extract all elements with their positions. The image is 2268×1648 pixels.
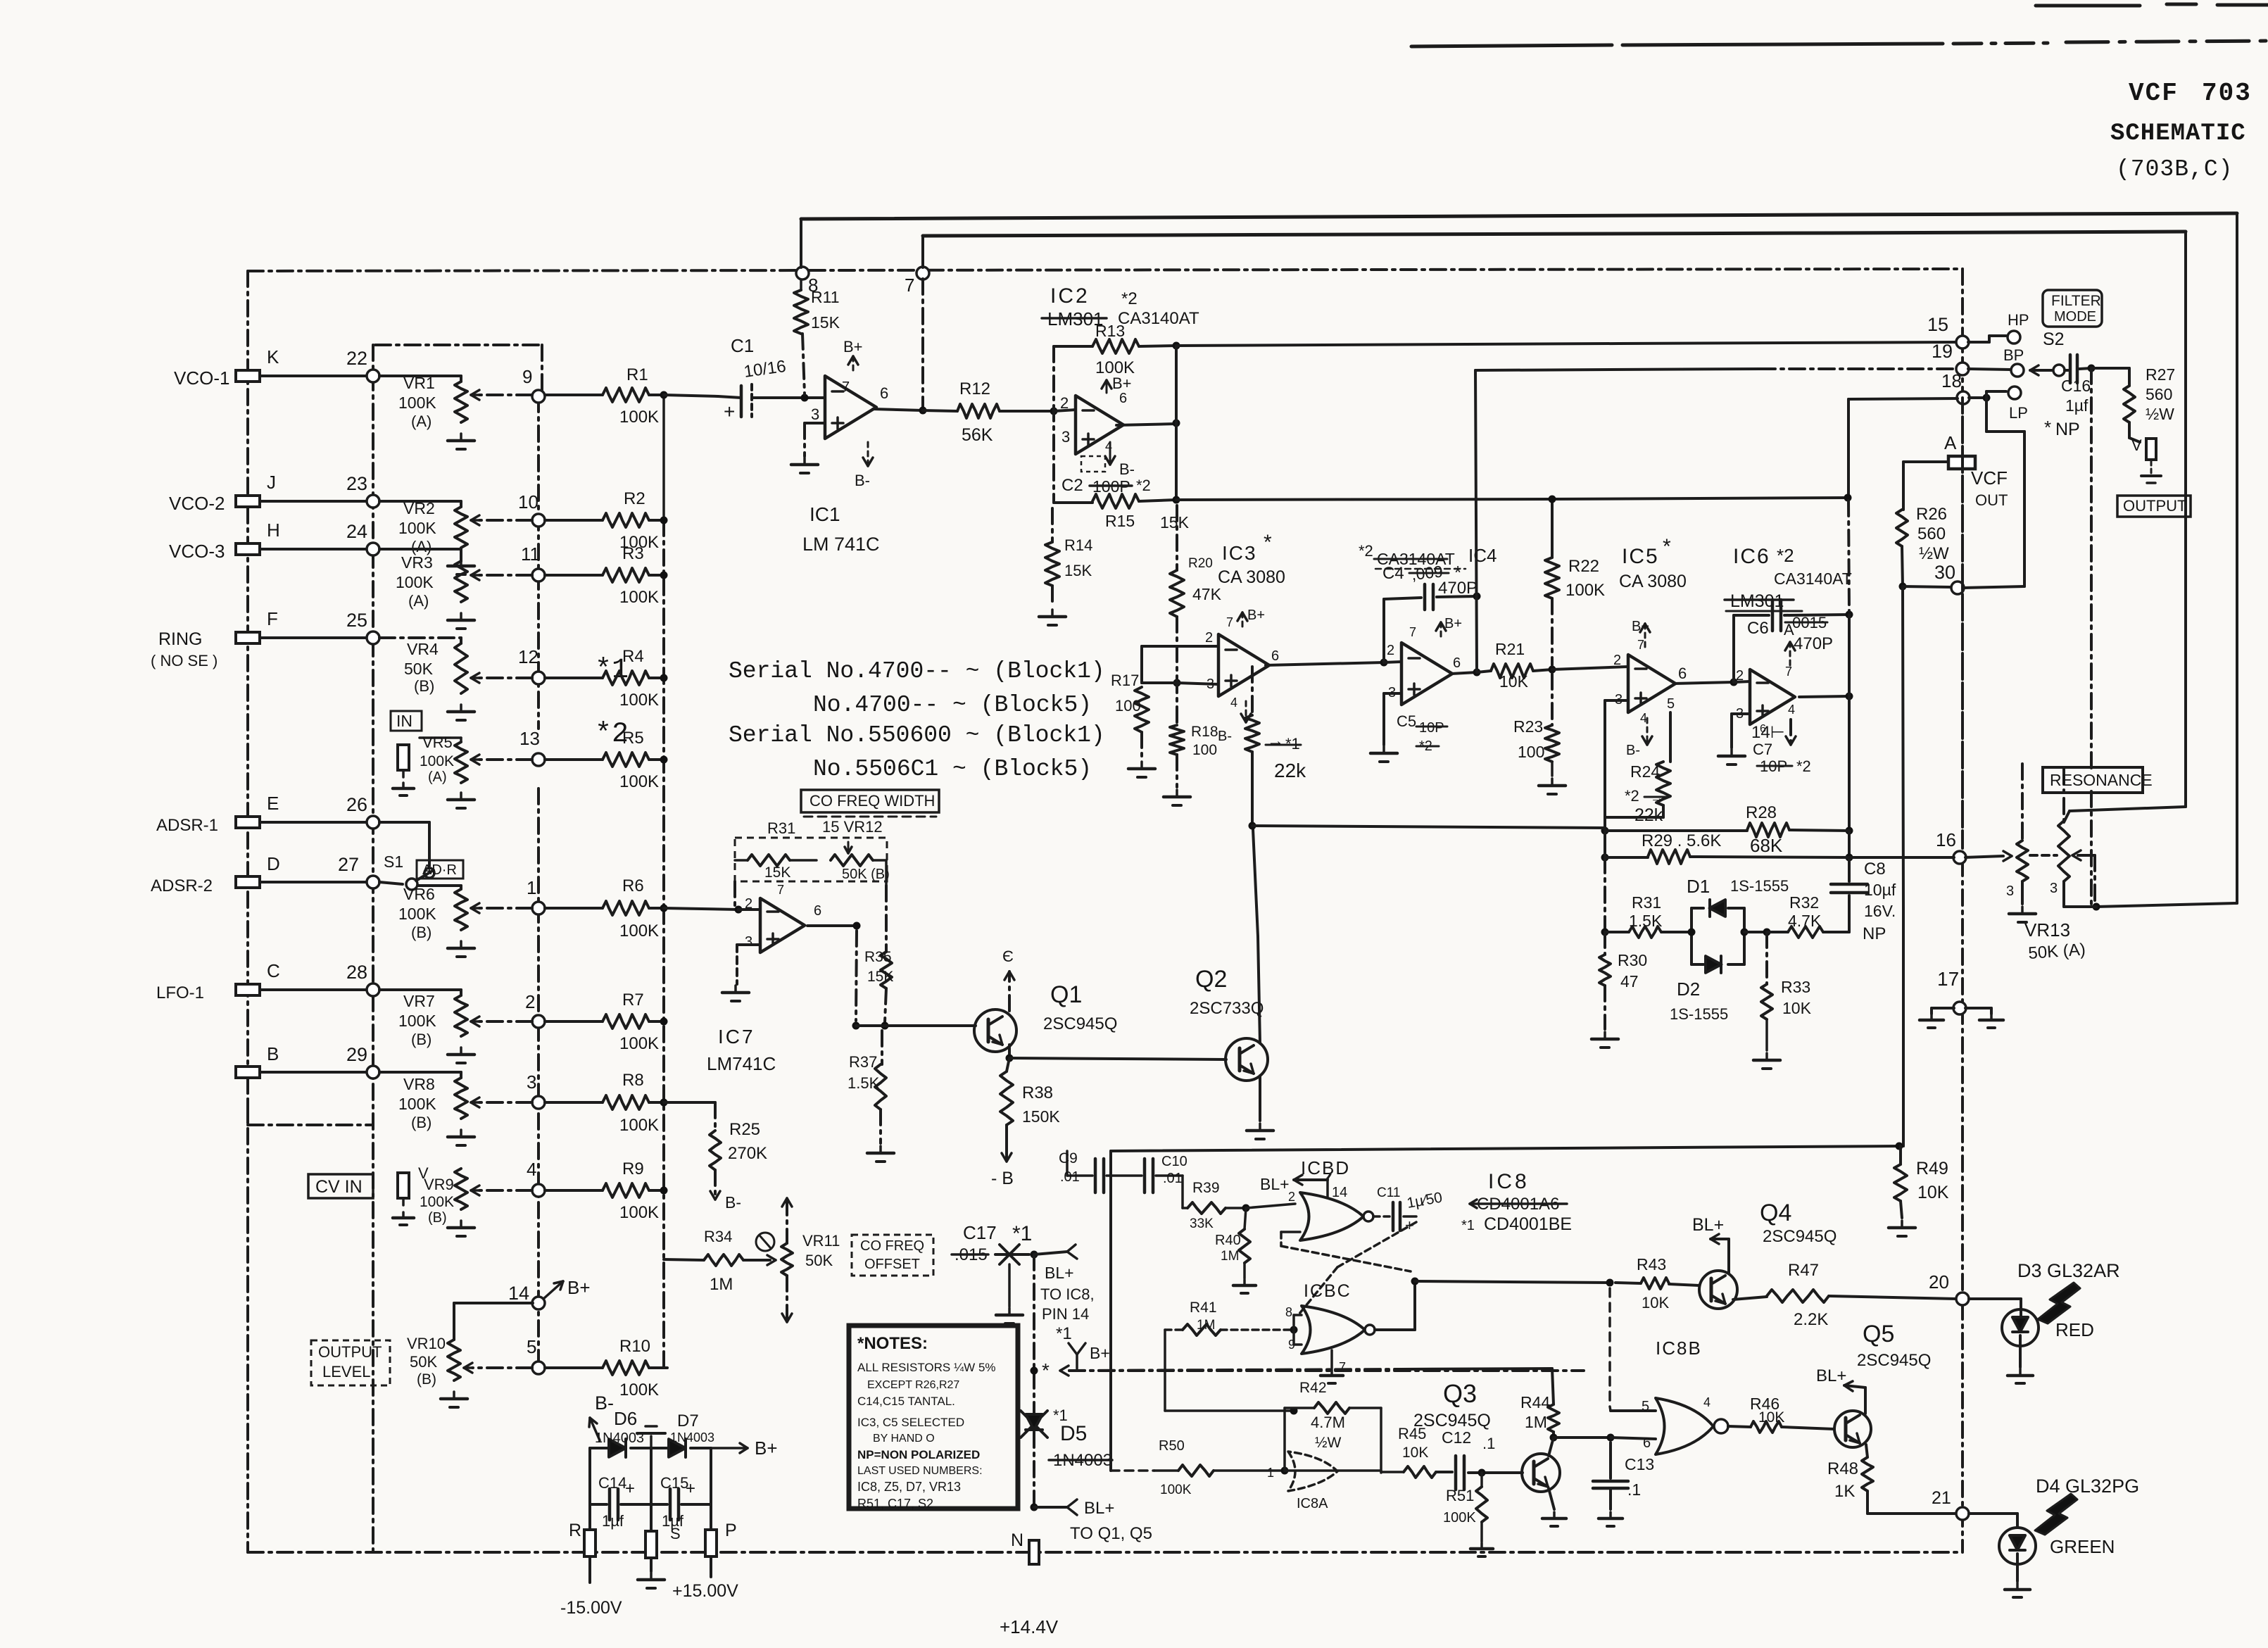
svg-text:13: 13 — [519, 728, 540, 749]
svg-text:Q5: Q5 — [1863, 1321, 1894, 1347]
arrow into element 2 from right — [2078, 854, 2095, 857]
connector S (gnd) — [645, 1531, 657, 1558]
svg-text:21: 21 — [1932, 1488, 1951, 1508]
svg-text:No.5506C1 ~ (Block5): No.5506C1 ~ (Block5) — [813, 756, 1092, 782]
svg-text:56K: 56K — [962, 425, 993, 445]
svg-text:R42: R42 — [1299, 1380, 1327, 1396]
svg-text:H: H — [267, 520, 280, 541]
capacitor C10 .01 — [1107, 1174, 1142, 1177]
svg-text:BL+: BL+ — [1084, 1499, 1114, 1518]
junction R3/summing — [660, 572, 668, 579]
transistor Q2 2SC733 — [1226, 1038, 1268, 1081]
svg-text:2: 2 — [745, 896, 752, 912]
svg-text:7: 7 — [1226, 615, 1233, 629]
svg-text:.01: .01 — [1163, 1171, 1183, 1186]
latch cross dashes — [1281, 1246, 1411, 1271]
svg-text:S1: S1 — [384, 853, 403, 871]
svg-text:7: 7 — [1339, 1360, 1346, 1374]
svg-text:IC8A: IC8A — [1297, 1496, 1328, 1511]
Q4 emitter to R47 — [1733, 1297, 1767, 1300]
svg-text:(B): (B) — [411, 1031, 431, 1048]
resistor R15 15K — [1054, 501, 1092, 504]
R50 100K on y2089 line — [1111, 1469, 1154, 1472]
svg-text:1.5K: 1.5K — [1629, 912, 1663, 930]
IC8C pin7 ground — [1330, 1350, 1333, 1369]
svg-text:15K: 15K — [811, 313, 840, 332]
svg-text:6: 6 — [880, 384, 888, 402]
wiper arrow VR6 — [479, 907, 532, 910]
svg-text:RESONANCE: RESONANCE — [2050, 771, 2153, 789]
svg-text:CA 3080: CA 3080 — [1218, 567, 1285, 587]
IC2 B- arrow — [1109, 442, 1111, 465]
svg-text:20: 20 — [1929, 1271, 1949, 1292]
svg-text:FILTER: FILTER — [2051, 293, 2101, 309]
svg-text:100K: 100K — [398, 905, 436, 923]
svg-text:3: 3 — [1207, 677, 1214, 692]
svg-text:(B): (B) — [417, 1371, 436, 1388]
svg-text:(B): (B) — [414, 677, 434, 695]
svg-text:R8: R8 — [622, 1071, 644, 1090]
svg-text:1S-1555: 1S-1555 — [1730, 877, 1789, 895]
svg-text:4: 4 — [527, 1159, 536, 1180]
svg-text:VR7: VR7 — [403, 992, 435, 1010]
svg-text:(B): (B) — [411, 924, 431, 941]
capacitor C9 .01 — [1066, 1151, 1069, 1176]
svg-text:R43: R43 — [1637, 1255, 1666, 1273]
svg-text:K: K — [267, 346, 279, 367]
svg-text:33K: 33K — [1190, 1216, 1214, 1231]
svg-text:VR6: VR6 — [403, 885, 435, 903]
svg-text:26: 26 — [346, 794, 367, 815]
Q4 BL+ arrow — [1727, 1239, 1730, 1273]
svg-text:2: 2 — [1613, 653, 1621, 668]
svg-text:2.2K: 2.2K — [1794, 1310, 1828, 1329]
pot VR2 100K (A) — [455, 507, 467, 548]
IC8C input 8 wire — [1292, 1315, 1295, 1330]
IC8C input 9 wire — [1292, 1330, 1295, 1345]
resistor R2 100K — [545, 519, 603, 522]
svg-text:29: 29 — [346, 1044, 367, 1065]
diode network D1/D2 — [1690, 908, 1693, 964]
connector C (LFO-1) — [236, 984, 260, 995]
resistor R48 1K — [1866, 1445, 1867, 1457]
svg-text:LAST USED NUMBERS:: LAST USED NUMBERS: — [857, 1465, 983, 1477]
svg-text:VCF: VCF — [2129, 79, 2179, 108]
transistor Q4 2SC945Q — [1699, 1271, 1737, 1309]
svg-text:3: 3 — [527, 1071, 536, 1093]
IC4 output up to pin19 line — [1475, 370, 1477, 672]
svg-text:IC5: IC5 — [1622, 545, 1659, 568]
svg-text:100K: 100K — [1443, 1510, 1476, 1526]
svg-text:R31: R31 — [767, 819, 795, 837]
wiper arrow VR4 — [479, 677, 532, 679]
wiper arrow VR8 — [479, 1101, 532, 1104]
IC6 output vertical — [1848, 615, 1851, 696]
svg-text:C14: C14 — [598, 1474, 626, 1492]
page top broken rule — [2036, 4, 2140, 8]
svg-text:100: 100 — [1518, 743, 1544, 761]
svg-text:100K: 100K — [420, 1194, 454, 1210]
resistor R31 1.5K — [1605, 931, 1629, 933]
pot VR13 50K(A) element 1 — [2021, 764, 2024, 841]
pot VR12 50K (B) — [831, 855, 873, 866]
stub below connector B — [246, 1078, 249, 1125]
IC6 A arrow above — [1789, 642, 1791, 666]
transistor Q5 2SC945Q — [1834, 1411, 1871, 1447]
junction R26 bottom — [1899, 583, 1907, 591]
svg-text:C11: C11 — [1377, 1185, 1400, 1200]
svg-text:GREEN: GREEN — [2050, 1536, 2115, 1557]
resistor R20 47K — [1170, 570, 1184, 617]
wire to switch contact — [379, 821, 429, 824]
svg-text:7: 7 — [1785, 665, 1792, 679]
svg-text:R15: R15 — [1105, 512, 1135, 530]
diode D6 1N4003 — [590, 1447, 609, 1449]
svg-text:CA3140AT: CA3140AT — [1118, 309, 1199, 328]
svg-text:LEVEL: LEVEL — [322, 1363, 371, 1380]
IC6 output wire — [1799, 696, 1849, 697]
svg-text:No.4700-- ~ (Block5): No.4700-- ~ (Block5) — [813, 692, 1092, 718]
resistor R26 560 halfW — [1896, 510, 1908, 546]
svg-text:470P: 470P — [1438, 579, 1478, 598]
IC7 output drop to Q1 base line — [856, 931, 857, 1021]
svg-text:C: C — [267, 960, 280, 981]
trimmer cap C17 — [995, 1253, 1029, 1256]
B+ feed line y1945 — [1069, 1369, 1401, 1371]
svg-text:R40: R40 — [1215, 1233, 1241, 1248]
wiper arrow VR7 — [479, 1020, 532, 1023]
lightning D3 — [2038, 1283, 2080, 1323]
junction C16 — [2088, 365, 2096, 372]
arrow into BP — [2030, 369, 2054, 372]
connector A rect — [1948, 456, 1975, 469]
svg-text:2SC945Q: 2SC945Q — [1857, 1351, 1931, 1370]
svg-text:C5: C5 — [1397, 712, 1416, 730]
IC8C output to node — [1375, 1328, 1415, 1331]
junction R2/summing — [660, 517, 668, 524]
IC2 B+ arrow — [1106, 380, 1108, 393]
resistor R29 5.6K — [1605, 856, 1648, 859]
svg-text:F: F — [267, 608, 278, 629]
op-amp IC3 CA3080 — [1218, 634, 1269, 696]
BP contact — [1968, 369, 2010, 370]
svg-text:4: 4 — [1230, 696, 1237, 710]
pot VR7 100K (B) — [455, 995, 467, 1036]
connector K (VCO-1) — [236, 370, 260, 382]
svg-text:R4: R4 — [622, 647, 644, 666]
resistor R22 100K — [1551, 499, 1554, 558]
svg-text:VCO-1: VCO-1 — [174, 367, 229, 389]
svg-text:100K: 100K — [1095, 358, 1135, 377]
capacitor C8 10uF 16V NP — [1848, 857, 1851, 881]
svg-text:*2: *2 — [1136, 477, 1151, 494]
svg-text:ADSR-1: ADSR-1 — [156, 816, 218, 835]
svg-text:30: 30 — [1934, 562, 1955, 583]
svg-text:C13: C13 — [1625, 1455, 1654, 1473]
jack IN — [398, 745, 409, 770]
svg-text:22: 22 — [346, 348, 367, 369]
wire pin20 to LED D3 — [1969, 1297, 2021, 1300]
wire A to R26 — [1903, 460, 1948, 463]
svg-text:½W: ½W — [1919, 544, 1949, 563]
wiper arrow VR10 — [472, 1366, 532, 1369]
wiper arrow VR2 — [479, 519, 532, 522]
transistor Q3 2SC945 — [1522, 1454, 1560, 1492]
svg-text:*: * — [1663, 535, 1671, 558]
svg-text:B: B — [267, 1043, 279, 1064]
IC2 comp cap dashed box — [1081, 456, 1105, 472]
resistor R47 2.2K — [1767, 1290, 1829, 1302]
svg-text:150K: 150K — [1022, 1107, 1060, 1126]
svg-text:8: 8 — [808, 275, 818, 296]
svg-text:+: + — [724, 401, 735, 422]
svg-text:IC6: IC6 — [1733, 545, 1770, 568]
svg-text:1: 1 — [527, 877, 536, 898]
svg-text:10K: 10K — [1499, 672, 1529, 691]
svg-text:R5: R5 — [622, 729, 644, 748]
svg-text:68K: 68K — [1750, 835, 1783, 856]
resistor R9 100K — [545, 1189, 603, 1192]
svg-text:*1: *1 — [1012, 1222, 1032, 1245]
svg-text:Q3: Q3 — [1443, 1379, 1477, 1408]
svg-text:24: 24 — [346, 521, 367, 542]
svg-text:A: A — [1784, 621, 1794, 639]
svg-text:1µf: 1µf — [2065, 396, 2089, 415]
wire to VR8 — [379, 1071, 461, 1074]
bus line 1 (to outer right frame) — [801, 215, 1830, 219]
svg-text:*NOTES:: *NOTES: — [857, 1334, 928, 1353]
svg-text:VCO-3: VCO-3 — [169, 541, 225, 562]
wire to R27 — [2091, 367, 2129, 370]
pot VR3 100K (A) — [455, 561, 467, 602]
pot VR9 100K (B) — [455, 1169, 467, 1209]
svg-text:CV IN: CV IN — [315, 1177, 363, 1197]
svg-text:(B): (B) — [411, 1114, 431, 1131]
svg-text:+14.4V: +14.4V — [1000, 1616, 1059, 1637]
svg-text:D2: D2 — [1677, 979, 1700, 1000]
dash-dot pin column below 30 — [1961, 398, 1964, 848]
junction R7/summing — [660, 1018, 668, 1026]
svg-text:15: 15 — [1927, 314, 1948, 335]
svg-text:VR11: VR11 — [802, 1232, 840, 1250]
svg-text:1M: 1M — [1221, 1249, 1239, 1264]
resistor R49 10K — [1899, 1146, 1902, 1164]
svg-text:100K: 100K — [1160, 1483, 1192, 1497]
svg-text:C10: C10 — [1161, 1154, 1187, 1169]
svg-text:ADSR-2: ADSR-2 — [151, 876, 213, 895]
junction outer loop — [2093, 903, 2100, 911]
resistor R32 4.7K — [1744, 931, 1767, 933]
svg-text:3: 3 — [811, 405, 819, 423]
svg-text:C9: C9 — [1059, 1150, 1078, 1166]
svg-text:100K: 100K — [398, 1012, 436, 1030]
svg-text:R33: R33 — [1781, 978, 1810, 996]
svg-text:R28: R28 — [1746, 803, 1777, 822]
svg-text:LM 741C: LM 741C — [802, 534, 880, 555]
svg-text:15K: 15K — [764, 864, 790, 881]
left rail down to R31 — [1604, 857, 1606, 932]
capacitor C1 10/16 (electrolytic) — [664, 395, 718, 396]
wire to VR4 — [379, 636, 461, 639]
svg-text:10K: 10K — [1758, 1409, 1784, 1426]
junction at R28 right — [1846, 827, 1853, 835]
svg-text:IC3, C5 SELECTED: IC3, C5 SELECTED — [857, 1416, 964, 1429]
circle-plus symbol — [756, 1233, 774, 1251]
capacitor C14 1uf — [590, 1503, 607, 1506]
svg-text:*: * — [2044, 417, 2051, 438]
svg-text:2: 2 — [1288, 1190, 1295, 1204]
svg-text:RING: RING — [158, 629, 203, 649]
latch output node line — [1411, 1278, 1419, 1285]
svg-text:100K: 100K — [619, 691, 659, 710]
svg-text:100: 100 — [1192, 742, 1217, 758]
svg-text:1M: 1M — [710, 1275, 733, 1294]
svg-text:VR3: VR3 — [401, 553, 433, 572]
svg-text:D7: D7 — [677, 1411, 699, 1430]
svg-text:50K: 50K — [410, 1353, 437, 1371]
junction R15 end — [1844, 494, 1852, 502]
VR12 to R35 column — [885, 860, 888, 886]
feedback line to pin 15 — [1176, 344, 1619, 346]
IC8B output R46 — [1728, 1426, 1751, 1427]
svg-text:R51: R51 — [1446, 1487, 1474, 1504]
IC1 B- arrow — [867, 442, 869, 466]
svg-text:OUTPUT: OUTPUT — [2123, 497, 2186, 515]
junction R21/R22 — [1549, 666, 1556, 674]
svg-text:B+: B+ — [1090, 1344, 1110, 1362]
wire C1 to IC1 inverting input — [752, 396, 825, 399]
capacitor C15 1uf — [651, 1503, 667, 1506]
svg-text:R1: R1 — [626, 365, 648, 384]
svg-text:ICBD: ICBD — [1301, 1157, 1350, 1178]
svg-text:4.7K: 4.7K — [1788, 912, 1822, 930]
inner bus column x765 — [537, 396, 540, 729]
svg-text:→: → — [1650, 791, 1664, 806]
svg-text:LM741C: LM741C — [707, 1053, 776, 1074]
svg-text:R: R — [569, 1521, 581, 1540]
svg-text:R17: R17 — [1111, 672, 1139, 689]
dash-dot at IC2 input column — [1052, 346, 1055, 503]
vertical from node 8 to top line — [800, 219, 802, 268]
connector E (ADSR-1) — [236, 817, 260, 828]
svg-text:100K: 100K — [619, 1203, 659, 1222]
Q1 base line — [856, 1024, 976, 1027]
wire right rail to P connector — [710, 1448, 712, 1530]
svg-text:VR2: VR2 — [403, 499, 435, 517]
svg-text:R18: R18 — [1191, 724, 1218, 740]
svg-text:C2: C2 — [1061, 476, 1083, 495]
svg-text:V: V — [2131, 436, 2142, 454]
svg-text:C16: C16 — [2061, 377, 2091, 395]
svg-text:Serial No.4700-- ~ (Block1): Serial No.4700-- ~ (Block1) — [729, 658, 1105, 684]
connector P (+15V) — [705, 1530, 717, 1556]
junction R11 bottom — [801, 394, 809, 402]
resistor R30 47 — [1604, 932, 1606, 955]
svg-text:100K: 100K — [396, 573, 434, 591]
IC5 B+ arrow — [1644, 624, 1646, 650]
Q3 base wire from C12 — [1468, 1471, 1523, 1474]
svg-text:2SC945Q: 2SC945Q — [1043, 1014, 1117, 1033]
resistor R11 15K — [800, 279, 802, 290]
wire to VR6 — [417, 884, 461, 887]
svg-text:*: * — [1264, 531, 1272, 554]
IC6 B- arrow — [1789, 719, 1792, 745]
summing bus column x948 lower — [662, 908, 665, 1368]
IC1 pin3 ground — [805, 422, 825, 424]
wire to VR3 — [379, 548, 461, 551]
svg-text:560: 560 — [2146, 385, 2172, 403]
long broken rule under top — [1411, 45, 1612, 46]
svg-text:B+: B+ — [1444, 616, 1462, 631]
connector B — [236, 1067, 260, 1078]
node 7 — [916, 267, 929, 279]
svg-text:CD4001BE: CD4001BE — [1484, 1214, 1572, 1234]
junction C17 — [1031, 1251, 1038, 1259]
svg-text:47: 47 — [1620, 972, 1639, 990]
svg-text:1N4003: 1N4003 — [670, 1430, 714, 1445]
svg-text:100K: 100K — [1565, 581, 1605, 600]
svg-text:100K: 100K — [619, 588, 659, 607]
svg-text:R50: R50 — [1159, 1438, 1185, 1454]
Q3 emitter ground — [1549, 1488, 1554, 1509]
svg-text:50K (A): 50K (A) — [2028, 940, 2086, 963]
svg-text:11: 11 — [521, 543, 540, 565]
svg-text:R3: R3 — [622, 544, 644, 563]
svg-text:B-: B- — [595, 1392, 614, 1414]
LED D4 GL32PG (GREEN) — [1999, 1528, 2036, 1564]
svg-text:NP: NP — [2055, 420, 2080, 439]
line to pin 19 — [1475, 369, 1760, 370]
svg-text:Q2: Q2 — [1195, 966, 1227, 993]
svg-text:1S-1555: 1S-1555 — [1670, 1005, 1728, 1023]
svg-text:3: 3 — [1061, 428, 1070, 446]
svg-text:2: 2 — [525, 991, 535, 1012]
svg-text:100K: 100K — [619, 1380, 659, 1399]
svg-text:( NO SE ): ( NO SE ) — [151, 652, 218, 669]
junction C4 right on IC4 out vertical — [1473, 593, 1481, 600]
svg-text:15K: 15K — [867, 969, 893, 985]
svg-text:R25: R25 — [729, 1120, 760, 1139]
resistor R10 100K — [545, 1366, 603, 1369]
IC8 region top line — [1111, 1146, 1903, 1151]
svg-text:TO Q1, Q5: TO Q1, Q5 — [1070, 1524, 1152, 1543]
svg-text:IC7: IC7 — [718, 1026, 755, 1048]
IC1 B+ arrow — [852, 356, 855, 373]
svg-text:*: * — [1042, 1359, 1050, 1381]
R42 feedback loop around IC8A — [1283, 1408, 1286, 1411]
IC8 region left vertical — [1109, 1151, 1112, 1471]
svg-text:C8: C8 — [1864, 860, 1886, 879]
open contact right — [1034, 1252, 1067, 1254]
IC4 output wire — [1451, 672, 1477, 674]
resistor R24 22k — [1669, 712, 1672, 762]
transistor Q1 2SC945 — [974, 1009, 1016, 1052]
Q3 collector — [1549, 1438, 1554, 1456]
pot VR10 50K (B) — [448, 1340, 460, 1380]
svg-text:560: 560 — [1917, 524, 1946, 543]
svg-text:C17: C17 — [963, 1222, 997, 1243]
dash-dot below node 7 — [921, 279, 924, 407]
svg-text:R45: R45 — [1398, 1425, 1426, 1442]
svg-text:4: 4 — [1788, 703, 1795, 717]
svg-text:17: 17 — [1937, 968, 1959, 990]
resistor R5 100K — [545, 758, 603, 761]
junction R13 line — [1173, 342, 1180, 350]
resistor R27 560 halfW — [2124, 386, 2135, 422]
svg-text:IC3: IC3 — [1222, 542, 1257, 564]
svg-text:1µf: 1µf — [602, 1512, 624, 1530]
resistor R34 1M — [664, 1259, 704, 1260]
